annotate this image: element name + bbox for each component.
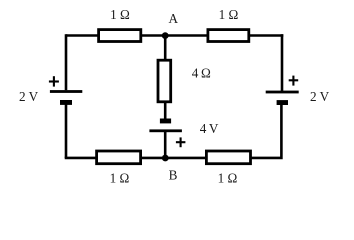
battery V2 (right 2V) positive plate bbox=[266, 91, 299, 94]
svg-text:4 V: 4 V bbox=[200, 121, 219, 136]
resistor R5 (bottom-right 1 ohm) bbox=[206, 151, 250, 164]
label node A bbox=[169, 11, 179, 26]
resistor R2 (top-right 1 ohm) bbox=[208, 30, 249, 42]
resistor R3 (middle vertical 4 ohm) bbox=[158, 60, 171, 102]
svg-text:1 Ω: 1 Ω bbox=[219, 7, 239, 22]
battery V3 (middle 4V) negative plate bbox=[160, 119, 171, 124]
label R3 value 4 ohm bbox=[192, 66, 211, 81]
svg-text:B: B bbox=[169, 167, 178, 182]
label R2 value 1 ohm bbox=[219, 7, 239, 22]
resistor R1 (top-left 1 ohm) bbox=[99, 30, 141, 42]
battery V1 negative plate bbox=[60, 100, 72, 105]
node A junction dot bbox=[162, 32, 169, 39]
svg-text:2 V: 2 V bbox=[310, 89, 330, 104]
label V2 value 2 V bbox=[310, 89, 330, 104]
wire bottom-left segment bbox=[65, 157, 96, 160]
wire middle vertical from node A to R3 bbox=[164, 36, 167, 61]
battery V3 positive plate bbox=[149, 129, 182, 132]
node B junction dot bbox=[162, 155, 169, 162]
wire top-left segment bbox=[66, 34, 98, 37]
resistor R4 (bottom-left 1 ohm) bbox=[97, 151, 141, 164]
label R1 value 1 ohm bbox=[110, 7, 130, 22]
svg-text:4 Ω: 4 Ω bbox=[192, 66, 211, 81]
svg-text:2 V: 2 V bbox=[19, 89, 39, 104]
battery V2 plus sign bbox=[289, 76, 299, 86]
label node B bbox=[169, 167, 178, 182]
wire right vertical upper bbox=[281, 34, 284, 91]
wire left vertical upper bbox=[65, 34, 68, 90]
battery V1 (left 2V) positive plate bbox=[50, 90, 82, 93]
battery V2 negative plate bbox=[277, 100, 288, 105]
label V1 value 2 V bbox=[19, 89, 39, 104]
wire right vertical lower bbox=[251, 104, 281, 158]
wire middle vertical from battery V3 to node B bbox=[164, 131, 167, 158]
wire bottom-middle segment bbox=[141, 157, 206, 160]
svg-text:1 Ω: 1 Ω bbox=[218, 171, 238, 186]
svg-text:A: A bbox=[169, 11, 179, 26]
svg-text:1 Ω: 1 Ω bbox=[110, 171, 130, 186]
svg-text:1 Ω: 1 Ω bbox=[110, 7, 130, 22]
battery V1 plus sign bbox=[49, 76, 59, 86]
wire middle vertical from R3 to battery V3 bbox=[164, 102, 167, 120]
wire top-middle segment bbox=[141, 34, 207, 37]
battery V3 plus sign bbox=[176, 137, 186, 147]
label R4 value 1 ohm bbox=[110, 171, 130, 186]
wire left vertical lower bbox=[65, 104, 68, 158]
label V3 value 4 V bbox=[200, 121, 219, 136]
wire top-right segment bbox=[249, 34, 283, 37]
label R5 value 1 ohm bbox=[218, 171, 238, 186]
